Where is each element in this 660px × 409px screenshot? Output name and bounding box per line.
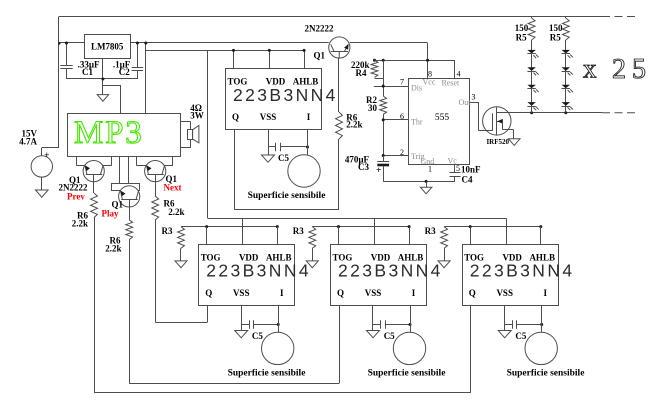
svg-text:1: 1 bbox=[428, 165, 432, 174]
wire: Dis pin7 stub bbox=[374, 86, 409, 88]
transistor Q1 2N2222 (top) bbox=[329, 37, 350, 58]
LED D4 bbox=[527, 102, 535, 106]
touch surface circle (U3) bbox=[288, 155, 320, 187]
LED D8 bbox=[562, 102, 570, 106]
transistor Q1 (Play) bbox=[119, 156, 121, 183]
wire: R4 top line to Reset bbox=[375, 60, 456, 62]
svg-text:30: 30 bbox=[368, 103, 378, 113]
ground under U6 C5 bbox=[504, 325, 506, 331]
resistor R2 30 bbox=[380, 96, 387, 114]
svg-text:2.2k: 2.2k bbox=[168, 207, 184, 217]
svg-text:Thr: Thr bbox=[411, 117, 423, 126]
svg-text:4: 4 bbox=[457, 70, 461, 79]
LED D6 bbox=[562, 67, 570, 71]
ground under R3 (U5) bbox=[306, 261, 318, 268]
svg-text:223B3NN4: 223B3NN4 bbox=[206, 261, 311, 281]
wire: gnd branch to MP3 bbox=[103, 85, 121, 87]
svg-text:25: 25 bbox=[612, 54, 652, 85]
dashed rail extensions bbox=[602, 16, 638, 18]
wire: +15V top rail bbox=[59, 16, 602, 18]
svg-text:R3: R3 bbox=[293, 226, 304, 236]
wire: U3 VSS down bbox=[268, 130, 270, 148]
svg-text:C5: C5 bbox=[252, 331, 263, 341]
svg-text:Out: Out bbox=[459, 98, 472, 107]
resistor R6 2.2k (Prev) bbox=[91, 193, 98, 218]
capacitor C5 (U5) bbox=[373, 324, 381, 326]
timer U1 555 bbox=[409, 79, 470, 165]
svg-text:2.2k: 2.2k bbox=[105, 244, 121, 254]
capacitor C2 .1uF bbox=[137, 43, 139, 68]
ground under source bbox=[36, 190, 49, 197]
svg-text:C5: C5 bbox=[384, 331, 395, 341]
resistor R6 2.2k (Next) bbox=[152, 196, 159, 220]
wire: U3 I pin bbox=[307, 130, 309, 156]
wire: U5 VSS down bbox=[372, 305, 374, 324]
resistor R4 220k bbox=[371, 60, 378, 77]
wire: Next collector to U4 Q bbox=[155, 220, 157, 322]
wire: LM7805 gnd stem bbox=[102, 59, 104, 95]
svg-text:10nF: 10nF bbox=[461, 165, 481, 175]
transistor Q1 (Prev) 2N2222 bbox=[83, 161, 104, 182]
svg-text:x: x bbox=[583, 54, 597, 84]
svg-text:555: 555 bbox=[435, 113, 450, 123]
capacitor C5 (U6) bbox=[505, 324, 513, 326]
resistor R6 2.2k (top Q1 collector) bbox=[338, 58, 340, 112]
wire: Trig pin2 stub bbox=[383, 155, 409, 157]
svg-text:R3: R3 bbox=[162, 226, 173, 236]
sensor U6 223B3NN4 bbox=[463, 245, 559, 306]
touch surface circle (U5) bbox=[393, 332, 425, 364]
svg-text:6: 6 bbox=[400, 112, 404, 121]
source V1 15V 4.7A bbox=[31, 156, 52, 177]
svg-text:3: 3 bbox=[472, 93, 476, 102]
resistor R5 150 (string 2) bbox=[562, 18, 569, 40]
regulator U2 LM7805 bbox=[85, 35, 131, 59]
wire: bottom gnd rail under 555 bbox=[383, 181, 455, 183]
svg-text:2N2222: 2N2222 bbox=[305, 24, 334, 34]
svg-text:Q: Q bbox=[337, 288, 344, 298]
wire: U4 I pin bbox=[278, 305, 280, 332]
svg-text:2.2k: 2.2k bbox=[346, 119, 362, 129]
svg-text:Next: Next bbox=[164, 183, 182, 193]
wire: +5V drop to MP3 bbox=[145, 43, 147, 113]
svg-text:I: I bbox=[280, 288, 284, 298]
ground under R3 (U6) bbox=[438, 261, 450, 268]
svg-text:I: I bbox=[543, 288, 547, 298]
transistor Q1 (Next) bbox=[145, 161, 166, 182]
svg-text:Vcc: Vcc bbox=[423, 78, 436, 87]
svg-text:MP3: MP3 bbox=[74, 115, 144, 151]
wire: Q1 emitter to 555 Vcc bbox=[350, 42, 428, 44]
wire: Out pin3 to MOSFET gate bbox=[469, 102, 478, 104]
capacitor C4 10nF bbox=[454, 164, 456, 172]
wire: U3 Q to R6 bbox=[234, 130, 236, 210]
ground at MOSFET source bbox=[509, 139, 521, 146]
svg-text:2.2k: 2.2k bbox=[72, 218, 88, 228]
wire: U4 VDD pin bbox=[242, 218, 244, 245]
svg-text:Superficie sensibile: Superficie sensibile bbox=[507, 368, 585, 378]
LED D7 bbox=[562, 85, 570, 89]
MP3 module bbox=[68, 114, 181, 157]
capacitor C3 470uF bbox=[383, 156, 385, 162]
wire: input to LM7805 bbox=[59, 42, 85, 44]
touch surface circle (U4) bbox=[262, 332, 294, 364]
resistor R3 (U4) bbox=[178, 227, 185, 249]
svg-text:223B3NN4: 223B3NN4 bbox=[233, 85, 338, 105]
svg-text:C5: C5 bbox=[515, 331, 526, 341]
wire: U3 VDD pin bbox=[269, 50, 271, 69]
wire: U6 VSS down bbox=[504, 305, 506, 324]
svg-text:Q1: Q1 bbox=[314, 51, 326, 61]
svg-text:VSS: VSS bbox=[260, 112, 277, 122]
wire: U6 I pin bbox=[541, 305, 543, 332]
LED D1 bbox=[527, 50, 535, 54]
wire: left supply rail bbox=[58, 17, 60, 148]
touch surface circle (U6) bbox=[525, 332, 557, 364]
ground under U5 C5 bbox=[372, 325, 374, 331]
svg-text:R3: R3 bbox=[425, 226, 436, 236]
capacitor C5 (U3) bbox=[268, 146, 276, 148]
ground under R3 (U4) bbox=[175, 261, 187, 268]
sensor U5 223B3NN4 bbox=[331, 245, 427, 306]
svg-text:5: 5 bbox=[456, 164, 460, 173]
svg-text:C2: C2 bbox=[119, 67, 130, 77]
wire: long +5V drop to lower rail bbox=[207, 50, 209, 218]
svg-text:Dis: Dis bbox=[411, 84, 422, 93]
svg-text:I: I bbox=[412, 288, 416, 298]
svg-text:VSS: VSS bbox=[365, 288, 382, 298]
wire: +5V branch line to sensor U3 bbox=[146, 50, 304, 52]
ground under U3 C5 bbox=[268, 147, 270, 155]
svg-text:C4: C4 bbox=[462, 175, 473, 185]
svg-text:Reset: Reset bbox=[442, 79, 461, 88]
svg-text:IRF520: IRF520 bbox=[486, 138, 509, 146]
wire: drain to LED rail bbox=[497, 112, 602, 114]
wire: U4 VSS down bbox=[241, 305, 243, 324]
wire: TOG line (U4) bbox=[181, 226, 277, 228]
sensor U3 223B3NN4 bbox=[226, 69, 322, 130]
svg-text:3W: 3W bbox=[190, 111, 204, 121]
svg-text:VSS: VSS bbox=[233, 288, 250, 298]
wire: LED string 1 bbox=[531, 40, 533, 113]
speaker SP1 4ohm 3W bbox=[181, 121, 190, 123]
svg-text:Superficie sensibile: Superficie sensibile bbox=[368, 368, 446, 378]
svg-text:Superficie sensibile: Superficie sensibile bbox=[228, 368, 306, 378]
capacitor C1 .33uF bbox=[66, 43, 68, 66]
sensor U4 223B3NN4 bbox=[199, 245, 295, 306]
svg-text:8: 8 bbox=[428, 70, 432, 79]
wire: U5 I pin bbox=[410, 305, 412, 332]
LED D2 bbox=[527, 67, 535, 71]
ground under 555 bbox=[426, 181, 428, 187]
wire: +5V output line bbox=[130, 42, 329, 44]
wire: TOG line (U5) bbox=[312, 226, 409, 228]
svg-text:7: 7 bbox=[400, 78, 404, 87]
svg-text:Prev: Prev bbox=[67, 192, 85, 202]
svg-text:Q: Q bbox=[232, 112, 239, 122]
wire: Prev collector to U6 Q bbox=[94, 218, 96, 393]
svg-text:Superficie sensibile: Superficie sensibile bbox=[248, 191, 326, 201]
capacitor C5 (U4) bbox=[241, 324, 249, 326]
wire: Play collector to U5 Q bbox=[129, 240, 131, 384]
svg-text:Play: Play bbox=[102, 209, 119, 219]
svg-text:C3: C3 bbox=[358, 162, 369, 172]
svg-text:+: + bbox=[44, 150, 49, 160]
wire: Thr pin6 stub bbox=[383, 114, 385, 155]
wire: U3 TOG pin bbox=[233, 50, 235, 69]
svg-text:223B3NN4: 223B3NN4 bbox=[470, 261, 575, 281]
LED D3 bbox=[527, 85, 535, 89]
svg-text:223B3NN4: 223B3NN4 bbox=[338, 261, 443, 281]
svg-text:C5: C5 bbox=[278, 153, 289, 163]
svg-text:LM7805: LM7805 bbox=[91, 42, 124, 52]
resistor R6 2.2k (Play) bbox=[126, 220, 133, 240]
wire: U5 VDD pin bbox=[374, 218, 376, 245]
resistor R3 (U5) bbox=[309, 227, 316, 249]
svg-text:R5: R5 bbox=[550, 32, 561, 42]
svg-text:2: 2 bbox=[400, 148, 404, 157]
svg-text:C1: C1 bbox=[82, 67, 93, 77]
svg-text:4.7A: 4.7A bbox=[19, 136, 37, 146]
ground under LM7805 bbox=[97, 95, 109, 102]
svg-text:R4: R4 bbox=[356, 68, 367, 78]
wire: TOG line (U6) bbox=[444, 226, 541, 228]
wire: column x383 bbox=[383, 60, 385, 96]
wire: +5V lower rail bbox=[208, 218, 506, 220]
svg-text:R5: R5 bbox=[516, 32, 527, 42]
resistor R3 (U6) bbox=[441, 227, 448, 249]
svg-text:Q: Q bbox=[469, 288, 476, 298]
LED D5 bbox=[562, 50, 570, 54]
MOSFET Q2 IRF520 bbox=[483, 107, 511, 135]
svg-text:VSS: VSS bbox=[496, 288, 513, 298]
wire: LED string 2 bbox=[565, 40, 567, 113]
wire: U3 AHLB pin bbox=[304, 50, 306, 69]
wire: C1-C2 bottom rail bbox=[67, 78, 138, 80]
svg-text:I: I bbox=[307, 112, 311, 122]
resistor R5 150 (string 1) bbox=[528, 18, 535, 40]
svg-text:Q: Q bbox=[205, 288, 212, 298]
ground under U4 C5 bbox=[241, 325, 243, 331]
